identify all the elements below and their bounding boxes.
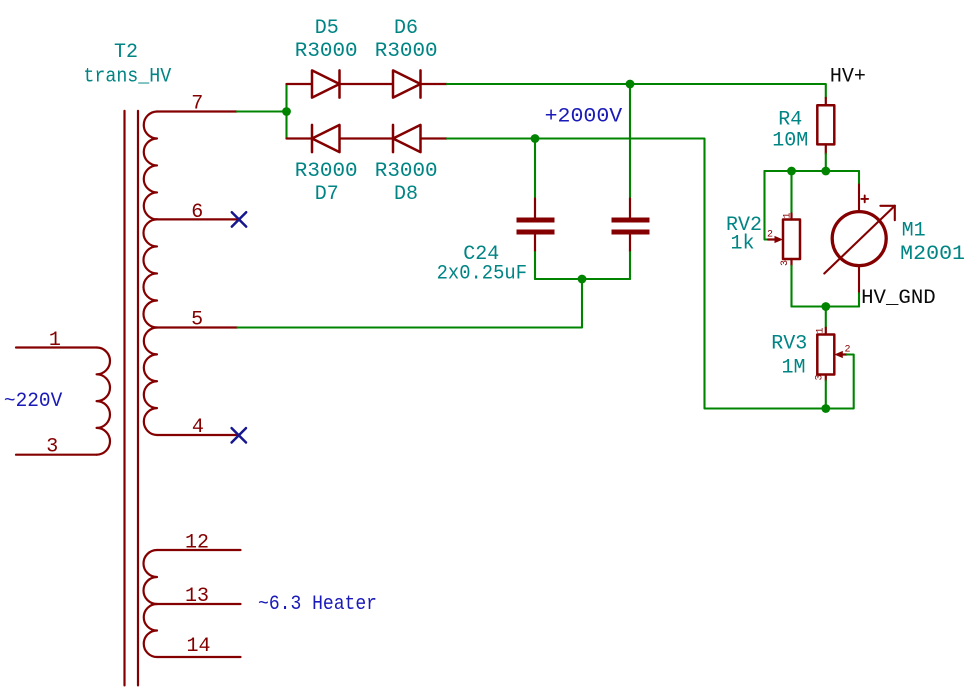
resistor R4 top pin xyxy=(825,98,827,105)
potentiometer RV3 xyxy=(817,328,847,381)
svg-text:D6: D6 xyxy=(394,17,418,40)
svg-text:4: 4 xyxy=(192,416,204,439)
svg-text:1: 1 xyxy=(815,327,826,333)
svg-text:3: 3 xyxy=(46,436,58,459)
node junction cap bottom xyxy=(578,275,587,284)
diode D8 xyxy=(393,125,421,152)
capacitor C24 unit A xyxy=(517,199,555,253)
diode D6 xyxy=(393,70,421,97)
svg-text:R3000: R3000 xyxy=(375,40,438,63)
no-connect pin 4 xyxy=(232,428,246,442)
svg-text:R4: R4 xyxy=(778,109,802,132)
wire cap A top lead xyxy=(534,139,536,199)
transformer T2 secondary winding 6-5 xyxy=(143,219,157,327)
transformer T2 heater winding 13-14 xyxy=(144,604,157,657)
wire D7-D8 pins xyxy=(340,137,394,139)
wire pin7 to junction xyxy=(237,110,287,112)
node junction RV2 top xyxy=(787,167,796,176)
transformer T2 pin 1 wire xyxy=(16,346,97,348)
svg-text:T2: T2 xyxy=(114,41,138,64)
resistor R4 bottom pin xyxy=(825,144,827,153)
node junction RV3 bottom xyxy=(821,404,830,413)
wire cap B bottom lead xyxy=(629,252,631,279)
transformer T2 primary winding xyxy=(97,348,110,455)
wire D5-D6 pins xyxy=(340,83,394,85)
svg-text:R3000: R3000 xyxy=(375,160,438,183)
transformer T2 core xyxy=(125,111,139,686)
svg-text:2: 2 xyxy=(767,230,773,241)
wire R4 to mid rail xyxy=(825,154,827,171)
wire HV+ top rail xyxy=(447,84,826,98)
diode D5 anode pin xyxy=(287,83,313,85)
svg-text:~220V: ~220V xyxy=(4,390,62,413)
svg-text:D8: D8 xyxy=(394,183,418,206)
diode D7 xyxy=(312,125,340,152)
wire mid rail xyxy=(765,170,860,172)
svg-text:M1: M1 xyxy=(902,219,926,242)
transformer T2 heater winding 12-13 xyxy=(144,550,158,604)
transformer T2 secondary winding 7-6 xyxy=(144,112,157,220)
wire RV2 pin1 lead xyxy=(790,171,792,213)
svg-text:6: 6 xyxy=(191,201,203,224)
potentiometer RV2 xyxy=(768,213,800,265)
svg-text:RV3: RV3 xyxy=(771,332,807,355)
transformer T2 pin 7 xyxy=(157,110,237,112)
meter M1 xyxy=(824,185,895,294)
transformer T2 secondary winding 5-4 xyxy=(144,328,157,436)
transformer T2 pin 6 xyxy=(157,218,239,220)
svg-text:1: 1 xyxy=(49,329,61,352)
transformer T2 pin 12 xyxy=(157,549,241,551)
svg-text:3: 3 xyxy=(780,260,791,266)
node junction cap A top xyxy=(531,134,540,143)
capacitor C24 unit B xyxy=(612,199,650,253)
wire RV3 pin3 lead xyxy=(825,381,827,409)
svg-text:1k: 1k xyxy=(730,232,754,255)
node junction HV_GND xyxy=(821,302,830,311)
wire +2000V rail xyxy=(447,139,826,409)
svg-text:14: 14 xyxy=(186,635,210,658)
svg-text:3: 3 xyxy=(814,374,825,380)
wire vertical diode feed xyxy=(285,84,287,139)
transformer T2 pin 3 wire xyxy=(16,454,97,456)
svg-text:+2000V: +2000V xyxy=(545,106,623,129)
transformer T2 pin 13 xyxy=(157,603,241,605)
node junction cap B top xyxy=(626,80,635,89)
svg-text:~6.3 Heater: ~6.3 Heater xyxy=(258,593,377,616)
svg-text:D7: D7 xyxy=(315,183,339,206)
transformer T2 pin 5 xyxy=(157,326,238,328)
wire meter bottom lead xyxy=(858,293,860,306)
transformer T2 pin 4 xyxy=(157,434,239,436)
resistor R4 xyxy=(817,105,834,144)
wire cap bottoms to pin 5 xyxy=(535,278,630,280)
svg-text:HV_GND: HV_GND xyxy=(861,287,936,310)
transformer T2 pin 14 xyxy=(157,656,241,658)
svg-text:2x0.25uF: 2x0.25uF xyxy=(437,263,527,286)
svg-text:1M: 1M xyxy=(781,357,805,380)
svg-text:12: 12 xyxy=(185,531,209,554)
no-connect pin 6 xyxy=(232,212,246,226)
diode D8 anode pin xyxy=(421,137,448,139)
svg-text:5: 5 xyxy=(191,309,203,332)
wire meter top lead xyxy=(858,171,860,185)
wire HV_GND rail xyxy=(792,305,860,307)
diode D6 cathode pin xyxy=(421,83,448,85)
wire cap B top lead xyxy=(629,84,631,199)
diode D5 xyxy=(312,70,340,97)
wire cap A bottom lead xyxy=(534,252,536,279)
wire RV2 pin3 to HV_GND rail xyxy=(790,266,792,307)
diode D7 cathode pin xyxy=(287,137,313,139)
svg-text:13: 13 xyxy=(185,585,209,608)
svg-text:7: 7 xyxy=(191,93,203,116)
node junction pin7 xyxy=(282,107,291,116)
wire HV_GND to RV3 xyxy=(825,307,827,328)
svg-text:10M: 10M xyxy=(772,130,808,153)
svg-text:R3000: R3000 xyxy=(295,160,358,183)
svg-text:M2001: M2001 xyxy=(900,243,965,266)
svg-text:D5: D5 xyxy=(315,17,339,40)
wire RV2 wiper feed xyxy=(765,171,769,240)
svg-text:1: 1 xyxy=(783,212,794,218)
svg-text:trans_HV: trans_HV xyxy=(83,66,171,89)
svg-text:HV+: HV+ xyxy=(830,66,866,89)
svg-text:R3000: R3000 xyxy=(295,40,358,63)
wire RV3 wiper loop xyxy=(826,355,854,409)
node junction R4 bottom xyxy=(821,167,830,176)
